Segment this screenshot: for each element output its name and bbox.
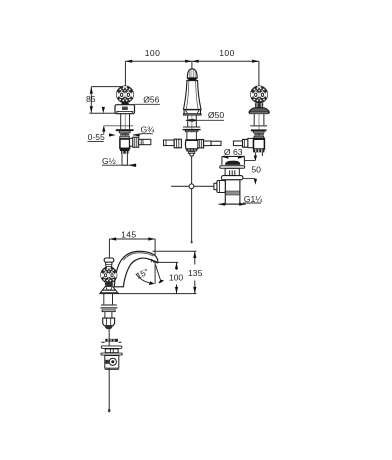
svg-text:Ø50: Ø50	[208, 110, 224, 120]
label diameter 56	[134, 94, 160, 104]
svg-text:Ø56: Ø56	[143, 94, 159, 104]
left valve G3/4 thread	[120, 133, 129, 138]
label G1/2	[102, 156, 136, 167]
right valve deck flanges	[250, 126, 267, 133]
spout shank between base and flange	[188, 115, 197, 133]
hose pipe right-valve side	[233, 138, 253, 147]
svg-text:100: 100	[145, 48, 161, 58]
dimension 135	[153, 251, 203, 293]
left valve side outlet	[130, 137, 139, 147]
dimension 100-100 top line	[125, 48, 259, 86]
right valve lower nut	[253, 149, 264, 156]
pop-up horizontal lever rod	[171, 184, 217, 189]
hose pipe tee left side	[164, 139, 182, 148]
hose pipe left-valve side	[139, 139, 151, 144]
drain side view top hatched bar	[101, 339, 121, 343]
spout deck flanges	[183, 127, 201, 132]
right valve flared base	[249, 108, 269, 114]
left valve tailpiece G1/2	[122, 154, 127, 166]
svg-text:135: 135	[188, 268, 203, 278]
tee neck	[187, 132, 197, 140]
right valve collar	[255, 103, 264, 107]
pop-up pull rod vertical	[191, 156, 193, 243]
left valve centerline	[124, 85, 126, 87]
drain leader line to 50 dim	[244, 156, 257, 162]
drain side view upper wide flange	[101, 346, 122, 349]
drain ball-joint housing front view	[214, 181, 225, 193]
left valve body	[120, 139, 130, 151]
side view shank below deck	[100, 292, 117, 318]
left valve collar	[121, 103, 128, 105]
svg-text:85: 85	[86, 94, 96, 104]
label diameter 50	[186, 110, 225, 122]
stream direction line 15 deg	[155, 265, 164, 284]
angle arc 15 deg	[134, 266, 154, 285]
label G3/4 with arrows	[109, 125, 155, 137]
left valve ball knob	[115, 86, 135, 103]
drain body front view	[225, 180, 240, 204]
label diameter 63	[224, 147, 243, 157]
tee right nut and pipes	[198, 140, 221, 148]
handle side view base	[100, 283, 118, 293]
svg-text:50: 50	[251, 165, 261, 175]
spout top dome	[187, 69, 197, 81]
left valve stem above deck flange	[121, 114, 130, 150]
spout body side view	[114, 251, 158, 286]
svg-text:100: 100	[169, 273, 184, 283]
svg-text:G½: G½	[102, 156, 116, 166]
spout base block	[183, 110, 201, 115]
drain side view body with ball joint	[105, 356, 119, 370]
dimension 0-55 left	[88, 107, 134, 142]
spout centerline	[191, 68, 193, 97]
dimension 50	[243, 165, 261, 185]
drain upper flange	[220, 166, 245, 169]
dimension 145	[109, 229, 155, 284]
drain lower flange	[221, 176, 243, 180]
svg-text:Ø 63: Ø 63	[224, 147, 243, 157]
drain plug front view	[222, 156, 245, 165]
left valve lower nut	[121, 151, 129, 154]
dimension 100 vertical	[158, 262, 183, 293]
deck line side view	[100, 293, 197, 295]
svg-text:100: 100	[219, 48, 235, 58]
svg-text:G1¼: G1¼	[244, 194, 263, 204]
handle side view finial	[104, 258, 114, 267]
left valve base escutcheon	[115, 105, 135, 114]
handle side view ball	[99, 267, 118, 283]
drain side view neck	[105, 349, 118, 353]
svg-text:G¾: G¾	[141, 125, 156, 135]
tee bottom nut and rod tip	[186, 149, 197, 156]
dimension 85 left	[86, 87, 127, 114]
right valve centerline	[258, 85, 260, 87]
drain side view lower wide flange	[101, 353, 122, 355]
left valve deck flange	[116, 129, 134, 133]
side view mounting nut	[103, 318, 115, 329]
right valve body	[254, 138, 265, 149]
right valve thread	[254, 133, 264, 138]
spout tapered column	[184, 81, 202, 110]
dimension G1 1/4	[218, 194, 263, 206]
svg-text:0-55: 0-55	[88, 132, 105, 142]
tee body	[185, 140, 198, 149]
right valve ball knob	[249, 86, 269, 103]
right valve stem	[254, 114, 264, 149]
svg-text:145: 145	[121, 229, 136, 239]
pull rod side view	[108, 329, 110, 412]
drain neck with slots	[225, 168, 239, 175]
